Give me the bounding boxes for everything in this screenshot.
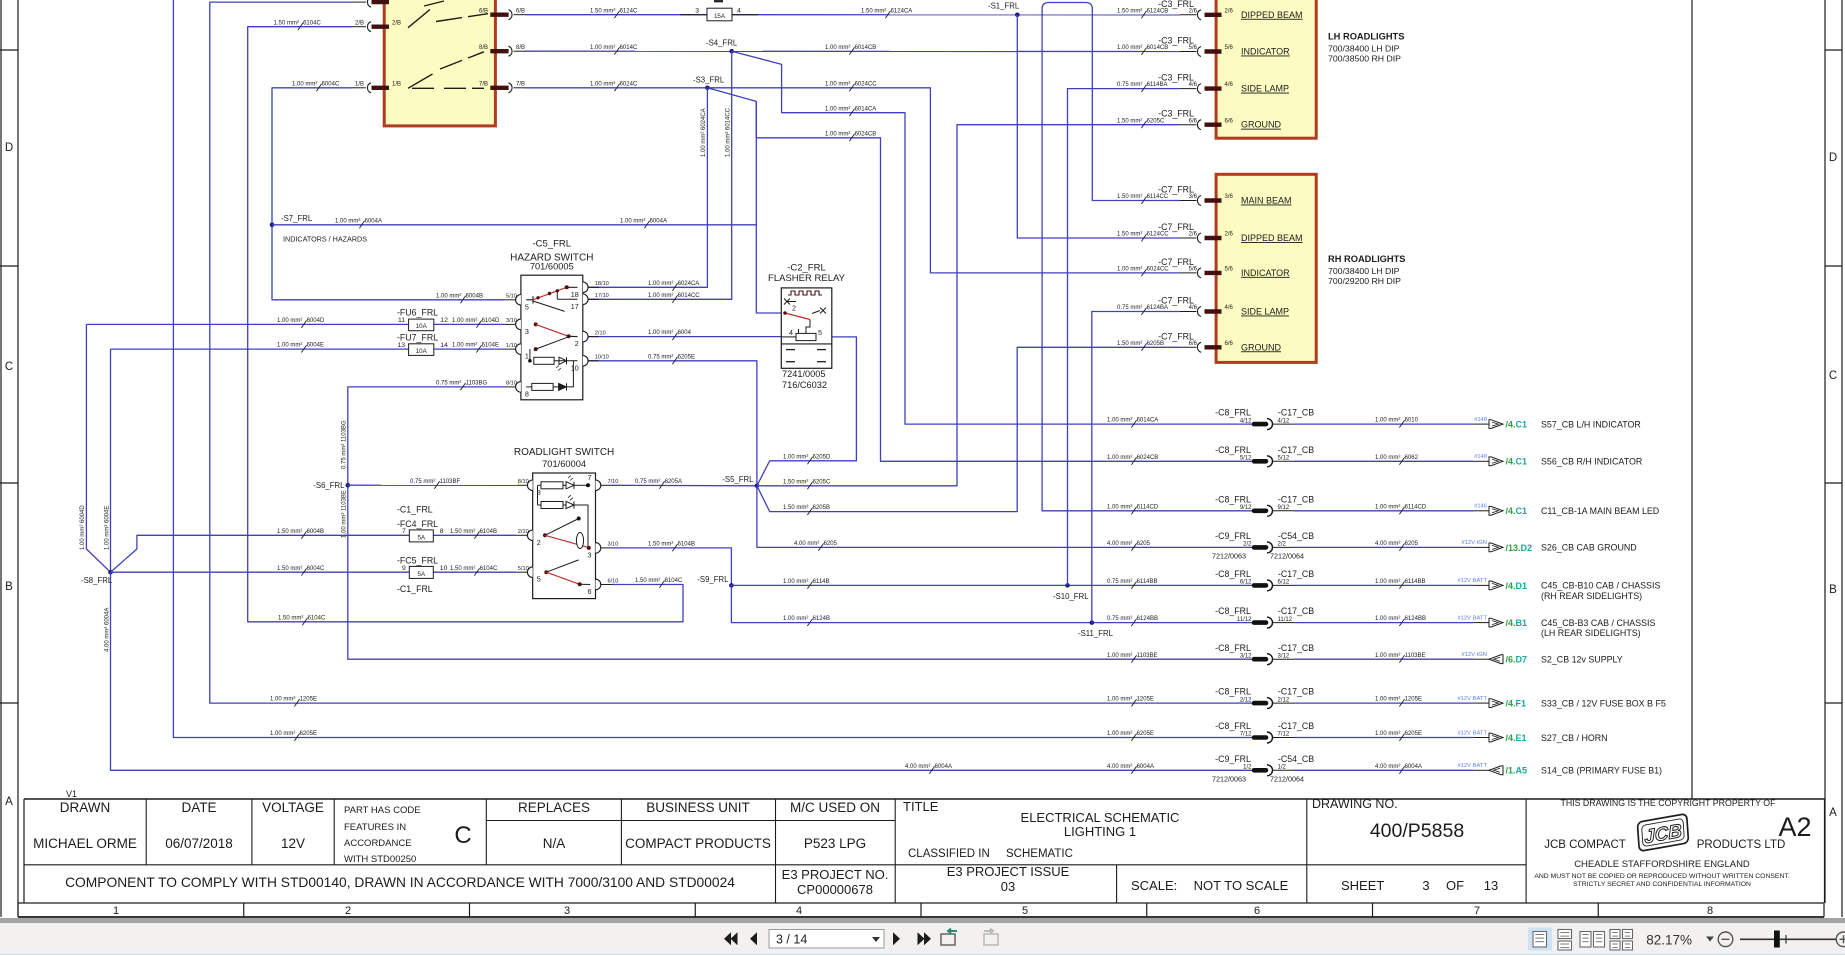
svg-text:PRODUCTS LTD: PRODUCTS LTD [1697,839,1786,851]
svg-text:-C8_FRL: -C8_FRL [1215,687,1251,697]
pin 2/10 [527,530,532,541]
svg-text:1.00 mm²: 1.00 mm² [1375,418,1400,424]
svg-text:DRAWING NO.: DRAWING NO. [1312,797,1398,811]
svg-text:7/B: 7/B [479,82,488,88]
svg-text:-C17_CB: -C17_CB [1278,408,1314,418]
svg-text:6/6: 6/6 [1225,341,1234,347]
svg-text:INDICATORS / HAZARDS: INDICATORS / HAZARDS [283,235,367,244]
svg-text:5/6: 5/6 [1225,45,1234,51]
svg-text:-S7_FRL: -S7_FRL [281,214,313,223]
pin 4/6 SIDE LAMP [1180,88,1197,90]
svg-text:3/6: 3/6 [1189,194,1198,200]
svg-text:AND MUST NOT BE COPIED OR REPR: AND MUST NOT BE COPIED OR REPRODUCED WIT… [1534,873,1789,880]
svg-text:12: 12 [440,317,448,324]
svg-text:2/2: 2/2 [1243,542,1252,548]
svg-text:6205A: 6205A [665,479,682,485]
svg-text:11: 11 [398,317,405,324]
svg-text:SCALE:: SCALE: [1131,878,1177,893]
wire 6205C: S5 to LH ground [757,125,1180,486]
svg-text:4.00 mm²: 4.00 mm² [1107,764,1132,770]
svg-text:700/38500 RH DIP: 700/38500 RH DIP [1328,54,1401,64]
svg-text:#12V BATT: #12V BATT [1457,578,1487,584]
svg-text:2/12: 2/12 [1278,697,1290,703]
svg-text:5/6: 5/6 [1225,267,1234,273]
svg-text:3 / 14: 3 / 14 [776,933,807,947]
svg-text:FLASHER RELAY: FLASHER RELAY [768,273,846,284]
view mode icons [1528,928,1552,951]
svg-text:BUSINESS UNIT: BUSINESS UNIT [646,800,750,815]
svg-text:4/6: 4/6 [1189,82,1198,88]
svg-text:7/12: 7/12 [1278,732,1290,738]
svg-text:COMPACT PRODUCTS: COMPACT PRODUCTS [625,836,771,851]
svg-text:2/2: 2/2 [1278,542,1287,548]
svg-text:4.00 mm²: 4.00 mm² [1107,541,1132,547]
svg-text:6004D: 6004D [307,318,325,324]
pin 6/6 GROUND [1180,346,1197,348]
svg-text:MICHAEL ORME: MICHAEL ORME [33,836,137,851]
svg-text:TITLE: TITLE [903,799,939,814]
svg-text:-S11_FRL: -S11_FRL [1078,629,1114,638]
svg-text:1/B: 1/B [355,82,364,88]
svg-text:C45_CB-B10 CAB / CHASSIS: C45_CB-B10 CAB / CHASSIS [1541,581,1660,591]
svg-text:5: 5 [818,328,822,337]
svg-text:7241/0005: 7241/0005 [782,369,825,379]
svg-text:1.50 mm²: 1.50 mm² [1117,118,1142,124]
svg-text:17: 17 [571,302,579,311]
svg-text:S26_CB CAB GROUND: S26_CB CAB GROUND [1541,543,1637,553]
pin 8/10 [527,480,532,491]
cut-off mark above fuse [714,0,723,2]
pin 2/6 DIPPED BEAM [1180,14,1197,16]
svg-text:#12V IGN: #12V IGN [1462,652,1487,658]
svg-text:6205C: 6205C [1147,118,1165,124]
svg-text:-C8_FRL: -C8_FRL [1215,408,1251,418]
svg-text:/4.E1: /4.E1 [1506,733,1527,743]
svg-text:4/6: 4/6 [1225,305,1234,311]
svg-text:6205: 6205 [1405,541,1419,547]
svg-text:6205E: 6205E [300,731,317,737]
svg-text:-C8_FRL: -C8_FRL [1215,643,1251,653]
svg-text:#148: #148 [1474,454,1487,460]
svg-text:1.00 mm² 6024CA: 1.00 mm² 6024CA [701,108,707,157]
svg-text:6124BB: 6124BB [1137,616,1158,622]
svg-text:-C1_FRL: -C1_FRL [397,584,433,594]
relay internals [788,291,822,295]
svg-text:STRICTLY SECRET AND CONFIDENTI: STRICTLY SECRET AND CONFIDENTIAL INFORMA… [1573,881,1751,888]
svg-text:6205: 6205 [824,541,838,547]
svg-text:7/B: 7/B [516,82,525,88]
svg-text:6/6: 6/6 [1189,118,1198,124]
wire 6024CB: S3 to S56 connector row [707,88,1254,462]
svg-text:400/P5858: 400/P5858 [1370,820,1464,842]
svg-text:ROADLIGHT SWITCH: ROADLIGHT SWITCH [514,447,614,458]
pin 5/6 INDICATOR [1180,51,1197,53]
svg-text:8/B: 8/B [479,45,488,51]
svg-text:5/6: 5/6 [1189,45,1198,51]
wire 6014CC: S4 down to hazard pin 17 [588,51,732,299]
pin 2/10 [583,331,588,342]
svg-text:(LH REAR SIDELIGHTS): (LH REAR SIDELIGHTS) [1541,628,1641,638]
svg-text:6/6: 6/6 [1189,341,1198,347]
svg-text:1.00 mm²: 1.00 mm² [277,318,302,324]
svg-text:4: 4 [789,328,793,337]
svg-text:-S10_FRL: -S10_FRL [1053,592,1089,601]
title block [24,798,1825,800]
svg-text:6205E: 6205E [1405,731,1422,737]
viewer bottom toolbar [0,918,1845,923]
svg-text:C: C [1829,370,1837,382]
svg-text:6205E: 6205E [1137,731,1154,737]
svg-text:6114CC: 6114CC [1147,194,1169,200]
svg-text:6004A: 6004A [650,218,667,224]
svg-text:3/12: 3/12 [1240,653,1252,659]
flasher relay C2_FRL box [781,288,832,368]
svg-text:1.00 mm²: 1.00 mm² [590,81,615,87]
svg-text:6: 6 [1254,905,1260,917]
svg-text:5: 5 [537,575,541,584]
svg-text:6114CD: 6114CD [1137,504,1159,510]
svg-text:SCHEMATIC: SCHEMATIC [1006,848,1073,860]
svg-text:6104D: 6104D [482,318,500,324]
svg-text:1.50 mm²: 1.50 mm² [635,578,660,584]
svg-text:1205E: 1205E [300,697,317,703]
svg-text:COMPONENT TO COMPLY WITH STD00: COMPONENT TO COMPLY WITH STD00140, DRAWN… [65,875,735,890]
svg-text:6024CA: 6024CA [678,281,700,287]
svg-text:4/6: 4/6 [1225,82,1234,88]
svg-text:-C8_FRL: -C8_FRL [1215,721,1251,731]
svg-text:1.00 mm²: 1.00 mm² [1107,653,1132,659]
svg-text:B: B [5,581,13,593]
svg-text:1.50 mm²: 1.50 mm² [1117,232,1142,238]
svg-text:6004A: 6004A [365,218,382,224]
svg-text:6104B: 6104B [678,542,695,548]
svg-text:-C7_FRL: -C7_FRL [1158,185,1194,195]
node S3_FRL [705,86,710,91]
svg-text:SHEET: SHEET [1341,878,1384,893]
svg-text:6104C: 6104C [308,615,326,621]
svg-text:FEATURES IN: FEATURES IN [344,822,406,833]
svg-text:9: 9 [402,565,406,572]
svg-text:7/10: 7/10 [608,479,619,485]
svg-text:2/B: 2/B [355,21,364,27]
svg-text:1.00 mm² 6004E: 1.00 mm² 6004E [104,506,110,550]
svg-text:3: 3 [564,905,570,917]
zone tick right [1825,265,1842,267]
svg-text:3/6: 3/6 [1225,194,1234,200]
svg-text:DIPPED BEAM: DIPPED BEAM [1241,233,1303,243]
svg-text:6: 6 [588,587,592,596]
svg-text:4: 4 [737,7,741,14]
svg-text:1.00 mm² 6004D: 1.00 mm² 6004D [80,505,86,550]
svg-text:1.00 mm²: 1.00 mm² [1117,45,1142,51]
svg-text:8: 8 [1707,905,1713,917]
sheet border frame [0,0,2,917]
svg-text:-FC5_FRL: -FC5_FRL [397,555,438,565]
wire 6024CA: S3 down to hazard pin 18 [588,88,707,287]
svg-text:1.00 mm²: 1.00 mm² [620,218,645,224]
svg-text:1.00 mm²: 1.00 mm² [452,343,477,349]
svg-text:10A: 10A [416,323,428,330]
node S11_FRL [1090,620,1095,625]
svg-text:6114BB: 6114BB [1137,579,1158,585]
svg-text:2/10: 2/10 [518,529,529,535]
svg-text:6205D: 6205D [813,454,831,460]
svg-text:A: A [5,796,13,808]
svg-text:11/12: 11/12 [1237,617,1252,623]
svg-text:CP00000678: CP00000678 [797,882,873,897]
svg-text:0.75 mm²: 0.75 mm² [1117,305,1142,311]
svg-text:DATE: DATE [181,800,216,815]
svg-text:-S9_FRL: -S9_FRL [697,575,729,584]
zone tick right [1825,49,1842,51]
svg-text:-C8_FRL: -C8_FRL [1215,606,1251,616]
svg-text:700/38400 LH DIP: 700/38400 LH DIP [1328,44,1400,54]
svg-text:1.50 mm²: 1.50 mm² [278,615,303,621]
svg-text:-C7_FRL: -C7_FRL [1158,222,1194,232]
svg-text:1.00 mm²: 1.00 mm² [590,45,615,51]
pin 8/10 [516,382,521,393]
svg-text:(RH REAR SIDELIGHTS): (RH REAR SIDELIGHTS) [1541,591,1642,601]
svg-text:/4.F1: /4.F1 [1506,699,1527,709]
svg-text:3: 3 [525,327,529,336]
zoom-in button [1836,932,1845,947]
svg-text:700/38400 LH DIP: 700/38400 LH DIP [1328,266,1400,276]
nav next [893,932,900,945]
svg-text:0.75 mm²: 0.75 mm² [635,479,660,485]
svg-text:11/12: 11/12 [1278,617,1293,623]
svg-text:5A: 5A [418,571,426,578]
svg-text:1.00 mm²: 1.00 mm² [292,81,317,87]
svg-text:-C7_FRL: -C7_FRL [1158,296,1194,306]
svg-text:0.75 mm²: 0.75 mm² [436,381,461,387]
svg-text:5A: 5A [418,534,426,541]
wire 6205D/E: hazard pin 10 down to S5 [588,361,757,486]
node S1_FRL [1015,13,1020,18]
svg-text:6124CC: 6124CC [1147,232,1170,238]
svg-text:2: 2 [537,538,541,547]
svg-text:8: 8 [525,389,529,398]
wire 1038F: S6 to roadlight switch pin 8 [348,484,517,486]
wire 6205: S5 down to S26 cab ground row [757,486,1254,548]
svg-text:INDICATOR: INDICATOR [1241,268,1290,278]
svg-text:1.00 mm² 6014CC: 1.00 mm² 6014CC [726,107,732,157]
pin 18/10 [583,282,588,293]
pin 6/10 [596,579,601,590]
svg-text:-C8_FRL: -C8_FRL [1215,494,1251,504]
prev-view icon [941,934,955,945]
svg-text:82.17%: 82.17% [1646,933,1692,948]
svg-text:1.00 mm²: 1.00 mm² [436,293,461,299]
pin 5/6 INDICATOR [1180,272,1197,274]
svg-text:M/C USED ON: M/C USED ON [790,800,880,815]
svg-text:CLASSIFIED IN: CLASSIFIED IN [908,848,990,860]
svg-text:6205C: 6205C [813,479,831,485]
svg-text:6004A: 6004A [1405,764,1422,770]
svg-text:A2: A2 [1778,812,1811,842]
svg-text:10/10: 10/10 [595,355,609,361]
svg-text:1205E: 1205E [1405,697,1422,703]
svg-text:13: 13 [1484,878,1498,893]
svg-text:9/12: 9/12 [1240,505,1252,511]
svg-text:2: 2 [575,339,579,348]
svg-text:1: 1 [525,352,529,361]
svg-text:6/12: 6/12 [1278,580,1290,586]
nav prev [750,932,757,945]
svg-text:S56_CB R/H INDICATOR: S56_CB R/H INDICATOR [1541,457,1642,467]
svg-text:N/A: N/A [543,836,566,851]
svg-text:7212/0064: 7212/0064 [1270,774,1304,783]
svg-text:/4.B1: /4.B1 [1506,618,1528,628]
svg-text:-C17_CB: -C17_CB [1278,494,1314,504]
pin 6/6 GROUND [1180,124,1197,126]
wire 6124C fuse row: block pin 6/B through 15A fuse to LH dipped beam [525,14,707,16]
svg-text:5/12: 5/12 [1278,456,1290,462]
svg-text:1.00 mm²: 1.00 mm² [783,616,808,622]
zone tick right [1825,702,1842,704]
wire 6004: hazard pin 2 to flasher relay pin 4 [588,336,781,338]
svg-text:6004C: 6004C [322,81,340,87]
svg-text:SIDE LAMP: SIDE LAMP [1241,307,1289,317]
svg-text:1.00 mm²: 1.00 mm² [1375,455,1400,461]
svg-text:1/2: 1/2 [1243,765,1252,771]
svg-text:18/10: 18/10 [595,281,609,287]
svg-text:1.50 mm²: 1.50 mm² [1117,341,1142,347]
wire 6124BA: S11 up to RH side lamp [1092,312,1180,623]
pin 5/10 [516,295,521,306]
svg-text:#148: #148 [1474,417,1487,423]
svg-text:-C8_FRL: -C8_FRL [1215,569,1251,579]
svg-text:6014CA: 6014CA [855,106,877,112]
wire 6004C: FC5 feed from S8 [111,571,410,573]
svg-text:6004A: 6004A [1137,764,1154,770]
svg-text:E3 PROJECT NO.: E3 PROJECT NO. [782,867,889,882]
svg-text:7/12: 7/12 [1240,732,1252,738]
svg-text:4.00 mm² 6004A: 4.00 mm² 6004A [104,608,110,652]
svg-text:1.50 mm²: 1.50 mm² [274,20,299,26]
svg-text:7212/0063: 7212/0063 [1212,551,1246,560]
svg-text:4.00 mm²: 4.00 mm² [1375,764,1400,770]
svg-text:1.50 mm²: 1.50 mm² [783,505,808,511]
svg-text:2/B: 2/B [392,21,401,27]
svg-text:-S6_FRL: -S6_FRL [313,481,345,490]
svg-text:1.50 mm²: 1.50 mm² [277,529,302,535]
svg-text:-C17_CB: -C17_CB [1278,569,1314,579]
svg-text:6124B: 6124B [813,616,830,622]
pin 3/6 MAIN BEAM [1180,200,1197,202]
svg-text:4/6: 4/6 [1189,305,1198,311]
svg-text:/4.C1: /4.C1 [1506,506,1528,516]
svg-text:0.75 mm²: 0.75 mm² [1117,82,1142,88]
svg-text:0.75 mm² 1103BG: 0.75 mm² 1103BG [342,420,348,469]
pin 7/10 [596,480,601,491]
svg-text:-FU6_FRL: -FU6_FRL [397,308,438,318]
pin 5/10 [527,567,532,578]
svg-text:#146: #146 [1474,504,1487,510]
svg-text:6104C: 6104C [665,578,683,584]
svg-text:ACCORDANCE: ACCORDANCE [344,838,412,849]
wire 6004E: FU7 feed [111,348,409,350]
svg-text:2/6: 2/6 [1189,8,1198,14]
hazard switch C5_FRL box [521,275,583,400]
svg-text:/6.D7: /6.D7 [1506,655,1528,665]
svg-text:-C7_FRL: -C7_FRL [1158,257,1194,267]
svg-text:-C8_FRL: -C8_FRL [1215,445,1251,455]
svg-text:C: C [454,822,471,849]
wire 6114BA: S10 up to LH side lamp [1068,89,1181,586]
svg-text:8/10: 8/10 [518,479,529,485]
svg-text:4: 4 [796,905,802,917]
svg-text:6205B: 6205B [1147,341,1164,347]
svg-text:7212/0064: 7212/0064 [1270,551,1304,560]
svg-text:1.00 mm²: 1.00 mm² [1107,418,1132,424]
next-view icon (disabled) [984,934,998,945]
pin 3/10 [596,543,601,554]
svg-text:2/10: 2/10 [595,330,606,336]
svg-text:6014CB: 6014CB [855,45,877,51]
svg-text:-FU7_FRL: -FU7_FRL [397,332,438,342]
svg-text:#12V BATT: #12V BATT [1457,763,1487,769]
svg-text:6014CC: 6014CC [678,293,701,299]
svg-text:6004B: 6004B [466,293,483,299]
connector pin 3/B (block left) [352,1,366,3]
svg-text:C11_CB-1A MAIN BEAM LED: C11_CB-1A MAIN BEAM LED [1541,506,1659,516]
svg-text:#12V BATT: #12V BATT [1457,615,1487,621]
svg-text:0.75 mm²: 0.75 mm² [1107,616,1132,622]
wire 6004C: block pin 1/B down to hazard switch pin 5 [272,88,505,300]
wire 6104B: roadlight pin 3 down to S9 [612,548,732,586]
wire 6014CA: S4 to S57 connector row [732,51,1254,424]
svg-text:PART HAS CODE: PART HAS CODE [344,805,421,816]
svg-text:10: 10 [440,565,448,572]
zone tick left [0,49,18,51]
svg-text:/4.C1: /4.C1 [1506,420,1528,430]
fuse 5A [409,566,433,578]
svg-text:4/12: 4/12 [1240,418,1252,424]
svg-text:4.00 mm²: 4.00 mm² [1375,541,1400,547]
switch contact dashes inside top block [408,10,430,28]
svg-text:6104C: 6104C [303,20,321,26]
svg-text:-C17_CB: -C17_CB [1278,687,1314,697]
svg-text:1103BG: 1103BG [466,381,488,387]
svg-text:-S8_FRL: -S8_FRL [81,576,113,585]
svg-text:1.00 mm²: 1.00 mm² [1375,579,1400,585]
node S9_FRL [729,583,734,588]
svg-text:6205B: 6205B [813,505,830,511]
svg-text:THIS DRAWING IS THE COPYRIGHT: THIS DRAWING IS THE COPYRIGHT PROPERTY O… [1560,798,1776,808]
svg-text:2/6: 2/6 [1189,232,1198,238]
svg-text:1.00 mm²: 1.00 mm² [825,131,850,137]
wire 6205B: S5 to RH ground [757,347,1180,511]
svg-text:7: 7 [1474,905,1480,917]
svg-text:8/10: 8/10 [506,381,517,387]
svg-text:4.00 mm²: 4.00 mm² [905,764,930,770]
svg-text:VOLTAGE: VOLTAGE [262,800,324,815]
svg-text:5: 5 [525,302,529,311]
wire 6124B: S9 down to S11 row [731,585,1254,622]
svg-text:2: 2 [345,905,351,917]
svg-text:1/B: 1/B [392,82,401,88]
svg-text:1.00 mm²: 1.00 mm² [1375,616,1400,622]
svg-text:8/B: 8/B [516,45,525,51]
svg-text:1.00 mm²: 1.00 mm² [783,454,808,460]
nav last-page [918,932,925,945]
pin 17/10 [583,294,588,305]
svg-text:6014CA: 6014CA [1137,418,1159,424]
svg-text:S33_CB / 12V FUSE BOX B F5: S33_CB / 12V FUSE BOX B F5 [1541,698,1666,708]
zone tick right [1825,482,1842,484]
svg-text:1.50 mm²: 1.50 mm² [1117,8,1142,14]
svg-text:1.00 mm²: 1.00 mm² [1375,504,1400,510]
